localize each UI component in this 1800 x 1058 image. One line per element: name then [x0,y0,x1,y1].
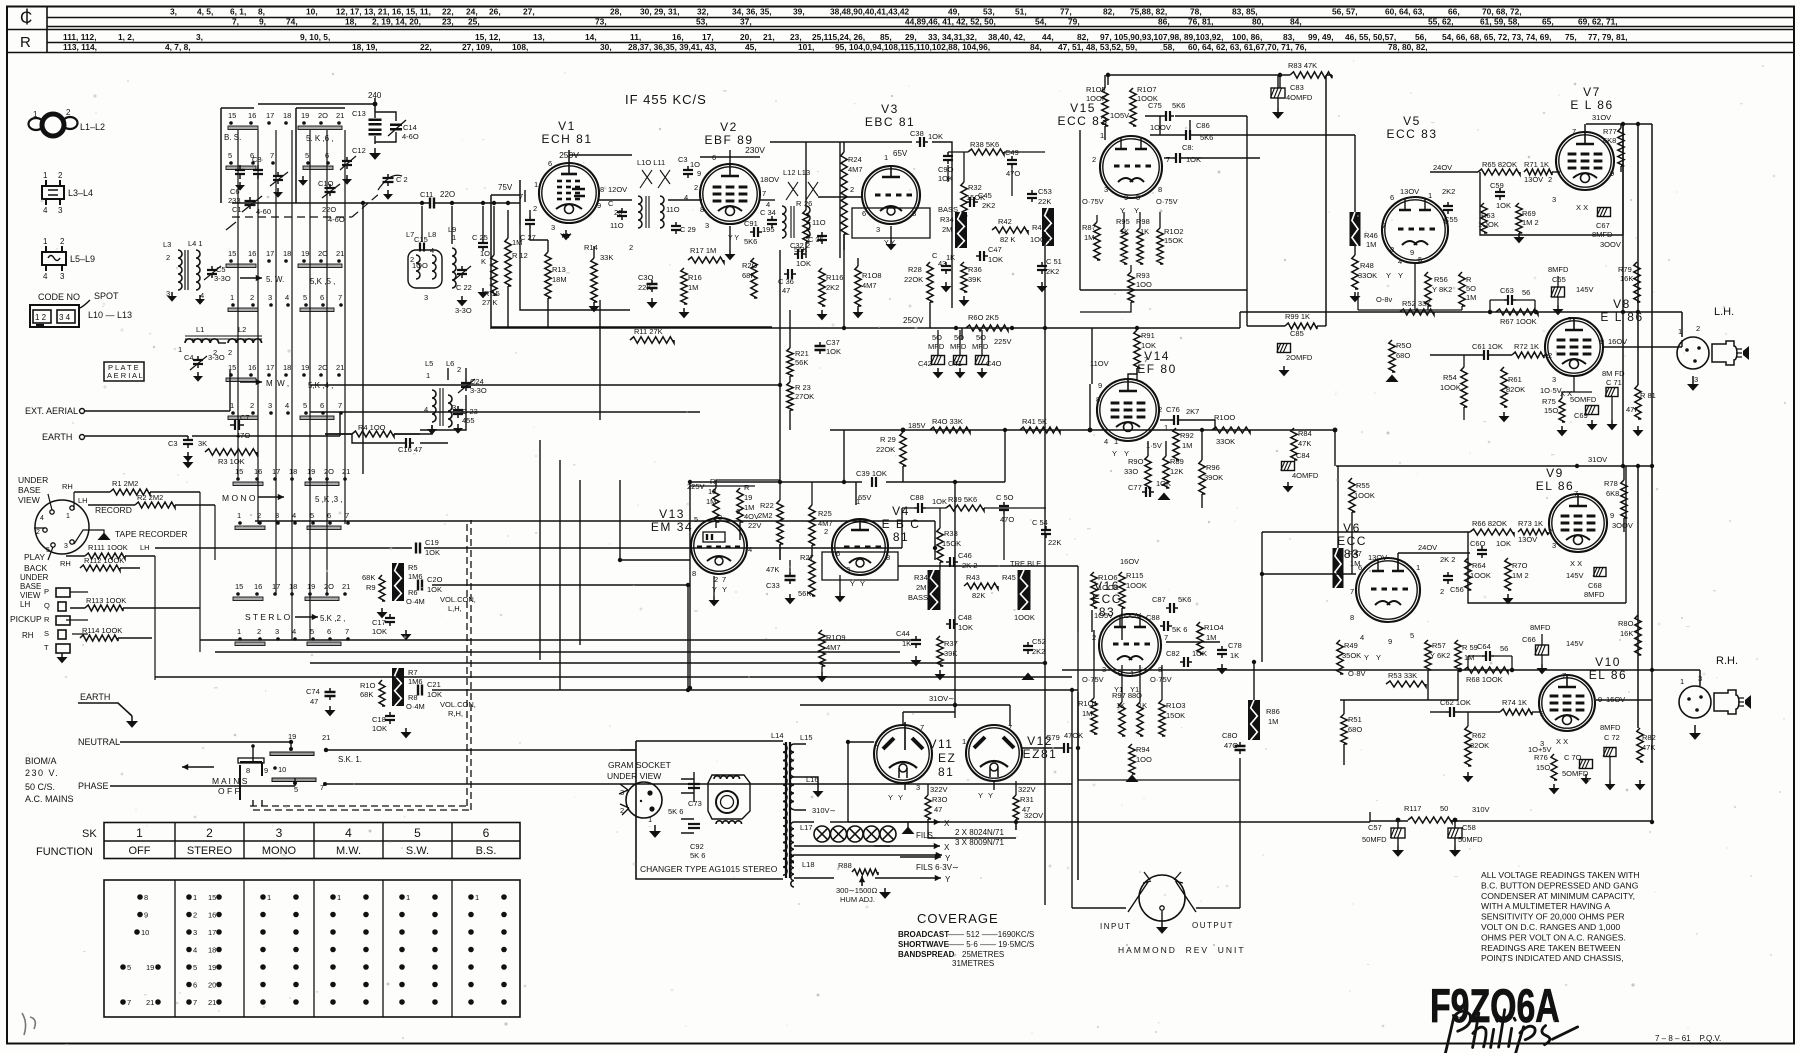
svg-text:1: 1 [534,180,538,189]
svg-text:26,: 26, [489,7,501,17]
svg-text:225V: 225V [994,337,1012,346]
svg-text:R7: R7 [408,668,418,677]
svg-text:BASE: BASE [20,582,41,591]
svg-text:V5: V5 [1403,114,1421,128]
aerial coils L1 L2 [178,325,262,357]
bank contacts STEREO 15-21 [233,582,350,601]
svg-text:1M 2: 1M 2 [1512,571,1529,580]
svg-text:C 5O: C 5O [996,493,1014,502]
svg-text:C56: C56 [1450,585,1464,594]
capacitor C44 1K [896,629,922,666]
label 240V V6 [1398,543,1470,553]
svg-text:EBC 81: EBC 81 [865,115,915,129]
svg-text:60, 64, 63,: 60, 64, 63, [1385,7,1425,17]
svg-text:R9: R9 [366,583,376,592]
svg-text:83, 85,: 83, 85, [1232,7,1258,17]
resistor R52 33K [1400,299,1434,315]
svg-text:47: 47 [934,805,942,814]
svg-text:C79: C79 [1046,733,1060,742]
selector arrow MW [240,379,289,388]
svg-text:C 72: C 72 [1604,733,1620,742]
svg-text:R112 1OOK: R112 1OOK [84,556,124,565]
wire bank columns [155,130,345,680]
resistor R17 1M [688,246,724,263]
svg-text:R95: R95 [1116,217,1130,226]
svg-text:1: 1 [475,893,479,902]
svg-text:7: 7 [1144,355,1148,364]
svg-text:24OV: 24OV [1418,543,1437,552]
svg-text:B. S.: B. S. [224,133,241,142]
svg-text:Y: Y [1386,271,1391,280]
pilot lamps [794,822,896,846]
svg-text:1OK: 1OK [938,174,953,183]
IF transformer L10 L11 [629,158,680,252]
svg-text:C3O: C3O [638,273,654,282]
resistor R117 [1404,804,1490,823]
wire LH socket drop [1681,312,1683,337]
svg-text:16: 16 [254,582,262,591]
stereo SK2 arrow [295,614,345,623]
svg-text:13,: 13, [533,32,545,42]
svg-text:1M6: 1M6 [408,677,423,686]
svg-text:R116: R116 [826,273,843,282]
svg-text:73,: 73, [595,17,607,27]
V13 ground [709,576,720,606]
svg-text:C61 1OK: C61 1OK [1472,342,1503,351]
svg-text:R: R [744,483,750,492]
capacitor C72 8MFD [1600,723,1621,790]
svg-text:78,: 78, [1190,7,1202,17]
svg-text:11,: 11, [630,32,641,42]
svg-text:4: 4 [292,627,296,636]
svg-text:16: 16 [248,249,256,258]
svg-text:O·75V: O·75V [1156,197,1178,206]
svg-text:R9O: R9O [1128,457,1144,466]
svg-text:9: 9 [264,766,268,775]
svg-text:C 7O: C 7O [1564,753,1582,762]
svg-text:4-6O: 4-6O [402,132,419,141]
svg-text:X X: X X [1556,737,1568,746]
under base view LH pickup labels [10,573,50,652]
svg-text:47: 47 [310,697,318,706]
svg-text:7: 7 [338,401,342,410]
capacitor C82 10K [1166,649,1207,667]
svg-text:18: 18 [708,487,716,496]
svg-text:C11: C11 [420,190,433,199]
resistor R80 16K [1618,615,1641,655]
svg-text:8: 8 [246,766,250,775]
svg-text:2: 2 [1092,155,1096,164]
svg-text:RH: RH [62,482,73,491]
tube V14 EF80 [1097,349,1177,441]
resistor R11 27K [630,327,674,343]
svg-text:22V: 22V [748,521,761,530]
svg-text:23,: 23, [442,17,454,27]
svg-text:3: 3 [424,293,428,302]
svg-text:60, 64, 62, 63, 61,67,70, 71,: 60, 64, 62, 63, 61,67,70, 71, 76, [1188,42,1307,52]
svg-text:R4 1OO: R4 1OO [358,423,386,432]
svg-text:R98: R98 [1136,217,1150,226]
svg-text:1: 1 [237,511,241,520]
svg-text:2K2: 2K2 [982,201,995,210]
svg-text:V15: V15 [1070,101,1096,115]
svg-text:R7O: R7O [1512,561,1528,570]
svg-text:1K: 1K [1140,227,1149,236]
svg-text:24,: 24, [466,7,478,17]
pot R34 2M upper [940,212,967,248]
svg-text:C73: C73 [688,799,702,808]
pot R44 100K upper treble [1030,208,1054,246]
svg-text:21: 21 [342,467,350,476]
resistor R84 47K [1291,428,1312,460]
svg-text:EXT. AERIAL: EXT. AERIAL [25,406,78,416]
svg-text:22,: 22, [420,42,432,52]
svg-text:97, 105,90,93,107,98, 89,103,9: 97, 105,90,93,107,98, 89,103,92, [1100,32,1223,42]
svg-text:C9O: C9O [938,165,954,174]
svg-text:31OV∼: 31OV∼ [929,694,954,703]
svg-text:19: 19 [146,963,154,972]
svg-text:A.C. MAINS: A.C. MAINS [25,794,74,804]
capacitor C46 2K2 lower [946,551,977,570]
tube V9 EL86 [1536,466,1607,552]
svg-text:3: 3 [876,225,880,234]
svg-text:VIEW: VIEW [18,495,40,505]
svg-text:INPUT: INPUT [1100,922,1132,931]
wire V10 pin9 [1596,699,1652,701]
bank contacts 5 6 row2 [303,151,333,170]
resistor R82 47K [1635,728,1656,790]
svg-text:R36: R36 [968,265,982,274]
svg-text:4, 7, 8,: 4, 7, 8, [165,42,191,52]
svg-text:C82: C82 [1166,649,1180,658]
svg-text:R37: R37 [944,639,958,648]
svg-text:6: 6 [1390,193,1394,202]
svg-text:22K: 22K [638,283,651,292]
fils Y arrows [875,852,959,884]
junction [1088,428,1093,433]
svg-text:R61: R61 [1508,375,1522,384]
svg-text:COVERAGE: COVERAGE [917,911,999,926]
svg-text:1OOK: 1OOK [1030,235,1051,244]
wire SK1 to right [326,749,636,751]
svg-text:C75: C75 [1148,101,1162,110]
svg-text:16: 16 [208,911,216,920]
svg-text:38,48,90,40,41,43,42: 38,48,90,40,41,43,42 [830,7,910,17]
wire V1 anode top [569,150,632,163]
svg-text:C53: C53 [1038,187,1052,196]
svg-text:1OK: 1OK [988,255,1003,264]
V14 pin numbers [1096,355,1168,458]
svg-text:1: 1 [136,826,143,840]
svg-text:6: 6 [548,159,552,168]
svg-text:17: 17 [266,363,274,372]
capacitor C80 470 [1222,731,1246,754]
svg-text:BANDSPREAD: BANDSPREAD [898,950,955,959]
right rail vertical C [1651,124,1653,820]
capacitor C54 22K [1032,518,1061,547]
gram socket [619,782,662,838]
svg-text:C45: C45 [978,191,992,200]
mains transformer T1 core [786,742,790,878]
resistor R9 68K [362,573,388,618]
selector arrow SW [240,275,284,284]
svg-text:C44: C44 [896,629,910,638]
svg-text:1: 1 [43,237,48,246]
svg-text:18: 18 [289,467,297,476]
svg-text:8: 8 [1158,185,1162,194]
svg-text:2 X 8024N/71: 2 X 8024N/71 [955,828,1004,837]
svg-text:19: 19 [307,467,315,476]
svg-text:15, 12,: 15, 12, [475,32,501,42]
svg-text:5O: 5O [1466,284,1476,293]
svg-text:ALL VOLTAGE READINGS TAKEN: ALL VOLTAGE READINGS TAKEN WITH [1481,870,1640,880]
svg-text:70, 68, 72,: 70, 68, 72, [1482,7,1522,17]
svg-text:7: 7 [1572,127,1576,136]
capacitor C7 470 [230,413,250,440]
svg-text:6: 6 [327,511,331,520]
resistor R50 680 [1386,340,1412,382]
speaker socket L.H. [1677,306,1749,391]
svg-text:1M: 1M [1464,653,1474,662]
svg-text:66,: 66, [1448,7,1460,17]
capacitor C39 10K [856,469,887,487]
svg-text:PLAY: PLAY [24,552,45,562]
svg-text:2: 2 [457,365,461,374]
fils types text [955,828,1004,847]
svg-text:R41 5K: R41 5K [1022,417,1047,426]
svg-text:Y: Y [945,875,951,884]
svg-text:16,: 16, [672,32,684,42]
V12 pin numbers [962,723,1012,800]
capacitor C58 [1448,820,1484,857]
svg-text:Y: Y [1376,653,1381,662]
svg-text:F9ZO6A: F9ZO6A [1430,980,1560,1033]
svg-text:2: 2 [166,253,170,262]
V2 supply voltage 230V [745,145,765,155]
capacitor C12 [340,146,366,185]
svg-text:R1O3: R1O3 [1166,701,1186,710]
resistor R70 1M2 [1503,558,1529,604]
resistor R62 820K [1463,712,1490,782]
svg-text:8: 8 [144,893,148,902]
tube V7 EL86 [1556,85,1614,190]
svg-text:R56: R56 [1434,275,1448,284]
svg-text:240: 240 [368,91,382,100]
V10 pin numbers [1528,671,1625,754]
resistor R15 27K [482,255,500,307]
svg-text:C 34: C 34 [760,208,776,217]
bank contacts SK3 1-7 [235,511,350,530]
resistor R21 56K [787,348,809,376]
svg-text:C37: C37 [826,338,840,347]
svg-text:C7: C7 [240,413,250,422]
wire V1 bottom frame [520,225,630,327]
wire bank top to C13 [258,98,375,112]
capacitor C91 5K6 [744,219,762,246]
svg-text:1OK: 1OK [958,623,973,632]
capacitor C55 [1443,202,1458,224]
svg-text:5: 5 [127,963,131,972]
svg-text:R43: R43 [966,573,980,582]
svg-text:C92: C92 [690,842,704,851]
svg-text:C86: C86 [1196,121,1210,130]
svg-text:M O N O: M O N O [222,493,256,503]
svg-text:4OMFD: 4OMFD [1286,93,1313,102]
wire V8 cathode [1562,376,1592,398]
resistor R115 100K [1119,571,1147,608]
svg-text:R69: R69 [1522,209,1536,218]
svg-text:27OK: 27OK [795,392,814,401]
svg-text:C68: C68 [1588,581,1602,590]
svg-text:12K: 12K [1170,467,1183,476]
V3 pin numbers [850,153,916,247]
svg-text:7: 7 [127,998,131,1007]
svg-text:30,: 30, [600,42,612,52]
svg-text:2: 2 [533,204,537,213]
playback label [24,552,47,573]
resistor R103 150K [1159,700,1186,736]
V8 pin numbers [1540,315,1627,398]
svg-text:7,: 7, [232,17,239,27]
svg-text:1: 1 [178,345,182,354]
V1 supply voltage 250V [559,150,579,160]
bank contacts 5 6 7 row [226,151,275,170]
coil pack L3-L4 symbol [42,171,93,215]
svg-text:17: 17 [208,928,216,937]
capacitor C21 10K [418,680,476,718]
capacitor C81 10K [1164,143,1215,164]
svg-text:16K: 16K [1620,274,1633,283]
svg-text:C: C [20,8,32,27]
svg-text:VIEW: VIEW [20,591,41,600]
svg-text:1M: 1M [1182,441,1192,450]
mains off switch [182,758,324,800]
svg-text:L5–L9: L5–L9 [70,254,95,264]
V16 cage wires [1078,632,1240,780]
svg-text:4OMFD: 4OMFD [1292,471,1319,480]
svg-text:47O: 47O [1006,169,1020,178]
svg-text:1OK: 1OK [1186,155,1201,164]
svg-text:C83: C83 [1290,83,1304,92]
wire V8 pin9 to rail [1602,340,1682,347]
svg-text:C47: C47 [988,245,1002,254]
svg-text:2O: 2O [324,582,334,591]
svg-text:2: 2 [257,627,261,636]
svg-text:R82: R82 [1642,733,1656,742]
svg-text:7: 7 [762,189,766,198]
svg-text:1K: 1K [1138,701,1147,710]
svg-text:3: 3 [1694,375,1698,384]
svg-text:1OK: 1OK [425,548,440,557]
svg-text:5: 5 [305,151,309,160]
svg-text:44,: 44, [1042,32,1054,42]
dashed screen box around SK1 [250,520,471,810]
svg-text:50: 50 [1440,804,1448,813]
svg-text:C16 47: C16 47 [398,445,422,454]
resistor R28 220K [904,262,933,302]
svg-text:C 2: C 2 [396,175,408,184]
V4 socket box [822,552,898,580]
capacitor C85 20MFD [1277,329,1313,376]
svg-text:61, 59, 58,: 61, 59, 58, [1480,17,1520,27]
svg-text:95, 104,0,94,108,115,110,102,8: 95, 104,0,94,108,115,110,102,88, 104,96, [835,42,990,52]
svg-text:R75: R75 [1542,397,1556,406]
svg-text:1M6: 1M6 [408,572,423,581]
svg-text:2: 2 [1548,175,1552,184]
svg-text:7: 7 [722,575,726,584]
wire EZ right vertical [1077,692,1079,880]
svg-text:L3: L3 [163,240,171,249]
svg-text:OUTPUT: OUTPUT [1192,921,1234,930]
svg-text:C3: C3 [678,155,688,164]
V4 cathode ground [835,575,846,602]
svg-text:1OOK: 1OOK [1470,571,1491,580]
hum adjust R88 [836,861,891,904]
svg-text:SK: SK [82,828,97,840]
svg-text:R22: R22 [760,501,774,510]
capacitor C23 455 [453,406,478,434]
svg-text:HUM ADJ.: HUM ADJ. [840,895,875,904]
capacitor C87 5K6 [1152,595,1191,613]
svg-text:1M: 1M [1084,233,1094,242]
svg-text:R68 1OOK: R68 1OOK [1466,675,1503,684]
svg-text:C 29: C 29 [680,225,696,234]
capacitor C90 10K [938,152,954,183]
svg-text:2: 2 [250,401,254,410]
svg-text:1: 1 [884,153,888,162]
svg-text:EM 34: EM 34 [651,520,693,534]
svg-text:24OV: 24OV [1433,163,1452,172]
svg-text:18M: 18M [552,275,567,284]
svg-text:8MFD: 8MFD [1592,230,1613,239]
svg-text:310V∼: 310V∼ [812,806,836,815]
pickup pin pads [56,588,88,663]
svg-text:1: 1 [648,815,652,824]
pot R47 1M [1333,548,1362,588]
voltage note text block [1481,870,1640,963]
svg-text:R93: R93 [1136,271,1150,280]
resistor R32 150K [961,182,985,216]
capacitor C77 10K [1128,479,1171,500]
svg-text:65V: 65V [893,149,908,158]
capacitor C53 22K [1027,187,1052,206]
right rail vertical A [1622,124,1624,466]
svg-text:5K6: 5K6 [1178,595,1191,604]
resistor R14 33K [584,243,613,312]
V13 pin numbers [692,507,752,594]
svg-text:230 V.: 230 V. [25,768,59,778]
tape socket under base view [34,492,89,560]
svg-text:C3: C3 [168,439,178,448]
svg-text:ECC 83: ECC 83 [1057,114,1108,128]
resistor R83 47K [1106,61,1332,326]
svg-text:50MFD: 50MFD [1362,835,1387,844]
svg-text:Y 8K2: Y 8K2 [1432,285,1452,294]
svg-text:1: 1 [1114,437,1118,446]
svg-text:28,37, 36,35, 39,41, 43,: 28,37, 36,35, 39,41, 43, [628,42,716,52]
svg-text:56,: 56, [1415,32,1427,42]
svg-text:2O: 2O [318,111,328,120]
svg-text:L3–L4: L3–L4 [68,188,93,198]
svg-text:R48: R48 [1360,261,1374,270]
resistor R75 150 [1542,397,1568,436]
svg-text:2, 19, 14, 20,: 2, 19, 14, 20, [372,17,421,27]
resistor R49 350K [1337,640,1361,674]
capacitor C71 8MFD [1602,369,1625,430]
svg-text:1OK: 1OK [427,690,442,699]
svg-text:4: 4 [285,293,289,302]
svg-text:R1 2M2: R1 2M2 [112,479,138,488]
